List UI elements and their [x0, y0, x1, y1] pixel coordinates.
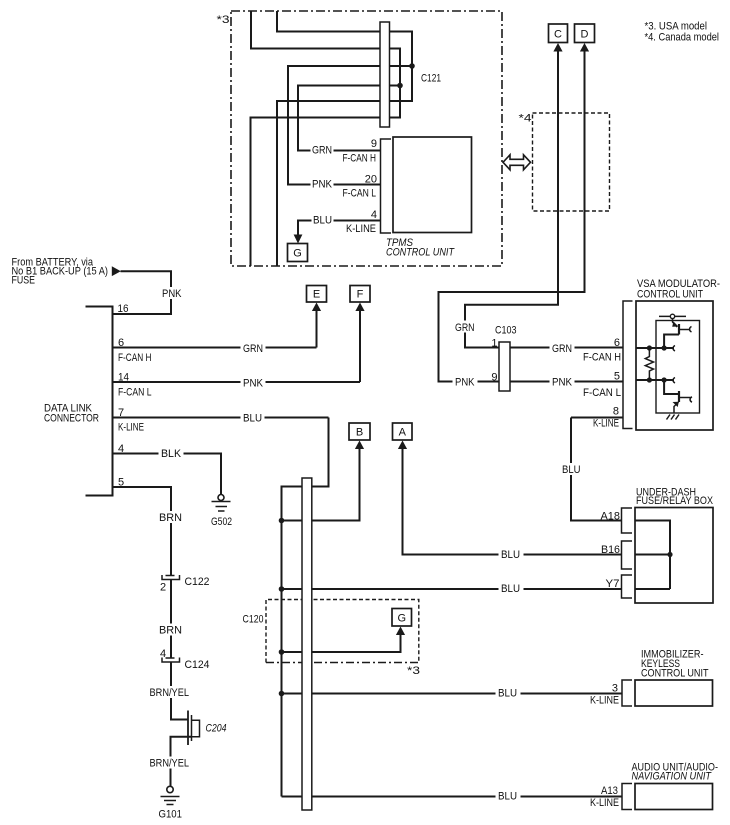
svg-text:*3: *3 — [217, 14, 230, 26]
svg-text:B: B — [356, 427, 363, 439]
box C — [549, 24, 568, 43]
svg-text:6: 6 — [118, 337, 124, 349]
box D — [575, 24, 595, 43]
label GRN (C103 left) — [453, 321, 478, 335]
svg-text:D: D — [581, 29, 589, 41]
svg-text:Y7: Y7 — [606, 578, 620, 590]
label BLU (B16) — [499, 548, 524, 561]
node dot inside under-dash box — [667, 552, 672, 557]
connector C204 — [187, 711, 189, 746]
connector C124 — [162, 658, 180, 663]
ground slashes (VSA) — [667, 415, 680, 420]
connector C120 bar — [302, 478, 312, 810]
wire BRN (DLC pin 5) — [113, 487, 172, 576]
svg-text:F-CAN L: F-CAN L — [583, 387, 621, 399]
svg-text:PNK: PNK — [552, 377, 573, 389]
svg-text:BRN: BRN — [159, 512, 182, 524]
svg-text:F-CAN H: F-CAN H — [583, 352, 621, 364]
label BLK — [159, 447, 184, 460]
label PNK (VSA side) — [550, 375, 575, 389]
svg-text:K-LINE: K-LINE — [118, 422, 144, 434]
arrow up into C — [553, 43, 562, 52]
svg-text:FUSE: FUSE — [12, 275, 36, 287]
transistor Q2 (VSA bottom) — [664, 380, 679, 394]
transistor Q1 (VSA top) — [673, 319, 678, 327]
connector bracket Y7 — [622, 575, 633, 598]
wire BLU pin8 down to A18 — [571, 418, 622, 521]
wire PNK branch W3 — [288, 66, 412, 185]
svg-text:PNK: PNK — [312, 179, 333, 191]
wire GRN up to E — [316, 311, 318, 348]
svg-text:*4: *4 — [519, 113, 532, 125]
wire PNK battery to pin 16 — [113, 271, 172, 314]
wire BRN/YEL C204 to G101 — [171, 737, 192, 787]
svg-text:5: 5 — [614, 371, 620, 383]
arrow up into A — [398, 441, 407, 450]
svg-text:PNK: PNK — [243, 378, 264, 390]
node dot at 281.5,520.5 — [279, 518, 285, 524]
wire F-CAN L net inside VSA — [636, 379, 674, 381]
node junction at 400,85.5 — [397, 83, 403, 89]
svg-text:7: 7 — [118, 407, 124, 419]
connector C103 bar — [499, 342, 510, 391]
svg-text:GRN: GRN — [243, 343, 263, 355]
wire K-LINE (DLC pin 7) — [113, 417, 329, 419]
svg-text:BLU: BLU — [498, 688, 517, 700]
svg-text:C: C — [554, 29, 562, 41]
wire C to C103 pin 1 (GRN) — [465, 51, 623, 348]
svg-text:BRN/YEL: BRN/YEL — [150, 758, 190, 770]
TPMS control unit box — [393, 137, 472, 233]
svg-text:CONTROL UNIT: CONTROL UNIT — [386, 247, 455, 259]
wire GRN loop W1 — [277, 11, 412, 266]
svg-text:BRN: BRN — [159, 625, 182, 637]
svg-text:BLU: BLU — [501, 549, 520, 561]
svg-text:C103: C103 — [495, 325, 517, 337]
box F — [350, 286, 370, 303]
svg-text:CONNECTOR: CONNECTOR — [44, 413, 99, 425]
label GRN (VSA side) — [550, 341, 575, 355]
connector bracket A18 — [622, 508, 633, 533]
box A — [393, 423, 413, 440]
VSA connector strip — [623, 301, 633, 429]
wire Q1 base to F-CAN H net — [664, 335, 679, 349]
label PNK (battery) — [160, 287, 184, 300]
node dot at 281.5,693.5 — [279, 691, 285, 697]
svg-text:A: A — [399, 427, 407, 439]
label BLU (TPMS row) — [312, 214, 334, 227]
connector bracket B16 — [622, 541, 633, 569]
svg-text:16: 16 — [118, 303, 129, 315]
svg-text:K-LINE: K-LINE — [593, 418, 619, 430]
wire F-CAN H (DLC pin 6 to E) — [113, 347, 317, 349]
svg-text:G: G — [398, 613, 407, 625]
wires inside under-dash box — [635, 521, 670, 590]
arrow up into F — [355, 303, 364, 312]
label BLU (audio) — [496, 790, 521, 803]
arrow up into D — [580, 43, 589, 52]
svg-text:C124: C124 — [185, 659, 210, 671]
G box (lower) — [392, 609, 412, 627]
wire B down to BLU net — [282, 449, 360, 521]
label PNK (TPMS row) — [311, 178, 334, 191]
dashed box *3 USA model (top) — [231, 11, 502, 266]
label BLU (DLC row) — [241, 412, 265, 425]
svg-text:*3: *3 — [407, 665, 420, 677]
svg-text:6: 6 — [614, 337, 620, 349]
svg-text:F-CAN L: F-CAN L — [118, 387, 152, 399]
svg-text:E: E — [313, 289, 320, 301]
svg-text:G: G — [293, 248, 302, 260]
svg-text:9: 9 — [491, 372, 497, 384]
audio unit box — [635, 784, 713, 810]
wire BLK (DLC pin 4) to ground — [113, 454, 222, 495]
wire Y7 row — [282, 588, 622, 590]
svg-text:BLU: BLU — [313, 215, 332, 227]
svg-text:C122: C122 — [185, 576, 210, 588]
label BLU (Y7) — [499, 582, 524, 595]
node dots F-CAN L net — [647, 377, 652, 382]
svg-text:GRN: GRN — [455, 322, 475, 334]
svg-text:C204: C204 — [206, 723, 227, 735]
svg-text:B16: B16 — [601, 544, 620, 556]
arrow to G (TPMS ground) — [294, 235, 303, 244]
label BRN (2) — [157, 624, 184, 637]
svg-text:BLU: BLU — [243, 413, 262, 425]
svg-text:C121: C121 — [421, 73, 441, 85]
wire BLU main net (pin7 down the page) — [282, 418, 329, 797]
svg-text:*4. Canada model: *4. Canada model — [645, 32, 720, 44]
wire PNK up to F — [359, 311, 361, 383]
battery feed arrow — [112, 266, 121, 276]
node junction at 412,66 — [409, 63, 415, 69]
under-dash fuse/relay box — [635, 508, 713, 604]
wire F-CAN L (DLC pin 14 to F) — [113, 381, 361, 383]
svg-text:BRN/YEL: BRN/YEL — [150, 687, 190, 699]
svg-text:1: 1 — [491, 338, 497, 350]
svg-text:K-LINE: K-LINE — [346, 223, 376, 235]
dashed box *4 Canada model — [533, 113, 610, 211]
arrow up into E — [312, 303, 321, 312]
wire BLU audio row — [282, 796, 623, 798]
svg-text:F-CAN H: F-CAN H — [343, 153, 377, 165]
svg-text:BLU: BLU — [501, 583, 520, 595]
svg-text:A18: A18 — [601, 511, 621, 523]
G box (TPMS) — [288, 244, 308, 262]
svg-text:BLU: BLU — [562, 464, 581, 476]
box B — [349, 423, 370, 440]
svg-text:G502: G502 — [211, 516, 232, 528]
wire BRN C122 to C124 — [170, 580, 172, 659]
label PNK (DLC row) — [241, 376, 266, 390]
VSA modulator-control unit box — [636, 301, 713, 430]
label GRN (DLC row) — [241, 342, 266, 356]
svg-text:NAVIGATION UNIT: NAVIGATION UNIT — [632, 771, 713, 783]
svg-text:F: F — [357, 289, 364, 301]
wire GRN branch W4 — [298, 86, 400, 151]
label BLU (immobilizer) — [496, 687, 521, 700]
connector C122 — [162, 575, 180, 580]
arrow up into G (lower) — [396, 627, 405, 636]
wire K-LINE pin8 to VSA — [571, 417, 623, 419]
double arrow symbol — [503, 155, 531, 170]
svg-text:4: 4 — [371, 209, 377, 221]
svg-text:4: 4 — [118, 443, 124, 455]
ground G502 — [218, 495, 224, 501]
svg-text:9: 9 — [371, 138, 377, 150]
svg-text:G101: G101 — [159, 809, 183, 821]
svg-text:GRN: GRN — [552, 343, 572, 355]
svg-text:C120: C120 — [243, 614, 264, 626]
label BRN — [157, 511, 184, 524]
wire BLU immobilizer row — [282, 693, 623, 695]
svg-text:CONTROL UNIT: CONTROL UNIT — [637, 289, 703, 301]
resistor (VSA) — [645, 348, 653, 380]
svg-text:A13: A13 — [601, 785, 618, 797]
svg-text:2: 2 — [160, 582, 166, 594]
svg-text:14: 14 — [118, 372, 129, 384]
audio connector bracket — [622, 784, 632, 810]
svg-text:PNK: PNK — [455, 377, 475, 389]
svg-text:8: 8 — [613, 406, 619, 418]
node dot at 281.5,652 — [279, 649, 285, 655]
svg-text:4: 4 — [160, 648, 166, 660]
svg-text:FUSE/RELAY BOX: FUSE/RELAY BOX — [636, 495, 714, 507]
label BLU (A18 wire) — [559, 463, 583, 476]
svg-text:3: 3 — [612, 683, 618, 695]
connector C121 bar — [380, 22, 390, 127]
wire B16 row from A — [403, 449, 622, 555]
node dots F-CAN H net — [647, 345, 652, 350]
node dot at 281.5,589 (Y7) — [279, 586, 285, 592]
wire PNK loop W2 — [251, 11, 401, 266]
TPMS connector strip — [381, 139, 392, 233]
ground G101 — [167, 786, 173, 792]
data link connector bracket — [86, 307, 113, 496]
arrow up into B — [355, 441, 364, 450]
VSA top line with contact circle — [659, 315, 686, 317]
wire F-CAN H net inside VSA — [636, 347, 674, 349]
dashed box *3 (lower) — [266, 600, 419, 663]
wire BLU K-LINE TPMS — [298, 221, 381, 235]
svg-text:GRN: GRN — [312, 145, 332, 157]
wire D to C103 pin 9 (PNK) — [439, 51, 624, 382]
immobilizer connector bracket — [622, 680, 632, 706]
svg-text:F-CAN L: F-CAN L — [343, 188, 377, 200]
svg-text:20: 20 — [365, 174, 377, 186]
box E — [307, 286, 327, 303]
svg-text:PNK: PNK — [162, 288, 182, 300]
svg-text:5: 5 — [118, 477, 124, 489]
label BRN/YEL (2) — [148, 757, 192, 770]
label GRN (TPMS row) — [311, 144, 334, 157]
VSA inner box — [656, 321, 700, 414]
label PNK (C103 left) — [453, 375, 478, 389]
svg-text:K-LINE: K-LINE — [590, 695, 619, 707]
label BRN/YEL (1) — [148, 686, 192, 699]
wire BRN/YEL C124 to C204 — [171, 662, 188, 720]
svg-text:BLK: BLK — [161, 448, 182, 460]
svg-text:BLU: BLU — [498, 791, 517, 803]
immobilizer-keyless control unit box — [635, 680, 713, 706]
svg-text:CONTROL UNIT: CONTROL UNIT — [641, 668, 709, 680]
svg-text:K-LINE: K-LINE — [590, 797, 619, 809]
svg-text:F-CAN H: F-CAN H — [118, 352, 152, 364]
wire to G (lower) — [282, 635, 401, 653]
